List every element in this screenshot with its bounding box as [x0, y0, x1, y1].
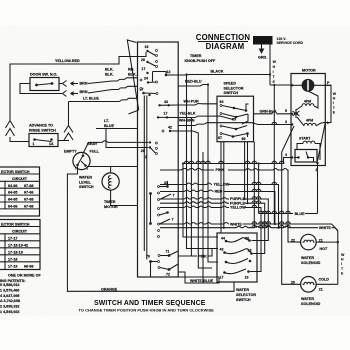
svg-text:CONNECTION: CONNECTION — [196, 33, 251, 42]
svg-text:2 3,899,332: 2 3,899,332 — [0, 305, 19, 309]
svg-text:7: 7 — [173, 194, 175, 198]
svg-text:4 3,637,095: 4 3,637,095 — [0, 294, 19, 298]
sss contact b — [245, 109, 248, 112]
svg-text:ADVANCE TO: ADVANCE TO — [29, 124, 53, 128]
wire black — [178, 74, 270, 77]
wire terminal2 down — [317, 163, 319, 214]
SECTION: timerbox — [105, 40, 216, 277]
svg-text:DOOR SW. N.O.: DOOR SW. N.O. — [30, 73, 57, 77]
centrifugal star — [293, 109, 300, 118]
junction yellow to white — [277, 227, 279, 229]
svg-text:21: 21 — [319, 238, 323, 242]
svg-text:GRD.: GRD. — [258, 56, 267, 60]
SECTION: bottomright — [217, 228, 345, 306]
wire door sw to connector — [59, 83, 62, 85]
svg-text:A 3,742,608: A 3,742,608 — [0, 299, 20, 303]
svg-text:67: 67 — [218, 136, 222, 140]
svg-text:YELLOW: YELLOW — [214, 183, 230, 187]
svg-text:LT.: LT. — [104, 119, 109, 123]
SECTION: bundle — [160, 73, 338, 284]
svg-text:ECTOR SWITCH: ECTOR SWITCH — [1, 170, 30, 174]
diagonal motor L to solenoid — [318, 123, 326, 162]
svg-text:64-66: 64-66 — [8, 205, 17, 209]
hot solenoid coil — [303, 240, 315, 242]
junction on red-blu wire — [207, 83, 209, 85]
svg-text:SELECTOR: SELECTOR — [236, 293, 256, 297]
timer box bottom ext — [178, 276, 219, 278]
svg-text:44: 44 — [221, 237, 225, 241]
junction on black wire — [185, 73, 187, 75]
wire wls3 to timer — [87, 166, 138, 168]
svg-text:MOTOR: MOTOR — [104, 205, 118, 209]
svg-text:72: 72 — [166, 273, 170, 277]
svg-text:24: 24 — [144, 77, 148, 81]
connector arrows BRN top — [63, 81, 67, 87]
svg-text:42: 42 — [168, 126, 172, 130]
svg-text:WATER: WATER — [301, 256, 314, 260]
svg-text:17-18-19: 17-18-19 — [8, 250, 23, 254]
svg-text:PINK: PINK — [198, 254, 207, 258]
svg-text:67-68: 67-68 — [24, 205, 33, 209]
svg-text:SWITCH AND TIMER SEQUENCE: SWITCH AND TIMER SEQUENCE — [94, 300, 206, 307]
junction dots bundle — [182, 162, 184, 164]
wls terminal 2 — [76, 164, 79, 167]
wire yellow h207 — [160, 206, 229, 207]
svg-text:WHITE-BLUE: WHITE-BLUE — [190, 279, 214, 283]
vertical wire v274 — [273, 85, 275, 224]
svg-text:BLK.: BLK. — [128, 72, 137, 76]
vertical wire v203 — [202, 152, 204, 283]
svg-text:1 4,549,923: 1 4,549,923 — [0, 310, 19, 314]
svg-text:WATER: WATER — [236, 288, 249, 292]
door switch contacts — [35, 84, 38, 87]
wire purple h199 — [160, 198, 229, 199]
svg-text:SERVICE CORD: SERVICE CORD — [277, 41, 304, 45]
svg-text:RINSE SWITCH: RINSE SWITCH — [29, 129, 56, 133]
svg-text:ONE OR MORE OF: ONE OR MORE OF — [8, 274, 42, 278]
vertical wire v193 — [190, 118, 192, 257]
wire blue h213 — [259, 213, 293, 215]
svg-text:67-68: 67-68 — [24, 198, 33, 202]
svg-text:SOLENOID: SOLENOID — [301, 261, 321, 265]
wire ltblue2 drop — [106, 129, 149, 148]
inner link segment — [150, 194, 152, 224]
wire chevron to advance switch — [10, 137, 29, 142]
terminal dots motor edge — [291, 84, 293, 86]
svg-text:16: 16 — [145, 45, 149, 49]
svg-text:64-65: 64-65 — [8, 191, 17, 195]
vertical wire v208 — [208, 156, 218, 262]
wire hop bumps right bundle — [252, 122, 290, 228]
timer motor bottom lead — [111, 190, 138, 206]
diagonal motor 3 to wss — [282, 126, 294, 152]
terminal 28 cluster — [149, 141, 151, 143]
wire grn-blk to motor — [254, 112, 292, 114]
hot solenoid circle — [301, 234, 317, 250]
winding upper — [302, 104, 314, 106]
wire white-blue — [178, 272, 219, 283]
water selector switch box — [217, 233, 257, 282]
svg-text:19: 19 — [245, 276, 249, 280]
svg-text:EMPTY: EMPTY — [64, 150, 77, 154]
svg-text:17-18-19-42: 17-18-19-42 — [8, 243, 28, 247]
svg-text:ORANGE: ORANGE — [101, 287, 118, 291]
timer cam triangle — [127, 40, 138, 114]
table speed selector — [0, 167, 40, 216]
wss mid contacts — [225, 261, 228, 264]
svg-text:4PM: 4PM — [304, 100, 311, 104]
SECTION: motor — [183, 69, 337, 238]
speed selector box — [217, 96, 254, 142]
winding lower — [304, 123, 316, 125]
wire wls2 down orange — [67, 167, 234, 292]
SECTION: title — [196, 33, 251, 51]
ground wire — [261, 45, 263, 49]
protector circle — [302, 80, 314, 92]
svg-text:RED: RED — [215, 190, 223, 194]
motor right bracket — [325, 85, 331, 122]
svg-text:BLUE: BLUE — [104, 124, 115, 128]
svg-text:CIRCUIT: CIRCUIT — [12, 229, 28, 233]
service cord plug — [253, 36, 273, 45]
svg-text:17-17: 17-17 — [8, 236, 17, 240]
wire yellow-red — [10, 52, 146, 120]
svg-text:28: 28 — [141, 149, 145, 153]
water level switch circle — [73, 152, 90, 169]
table water selector — [0, 220, 40, 270]
start winding leads — [297, 144, 320, 161]
wire purple h203 — [160, 202, 229, 203]
svg-text:SWITCH: SWITCH — [236, 298, 251, 302]
svg-text:BRN: BRN — [80, 82, 88, 86]
svg-text:5: 5 — [285, 109, 287, 113]
timer motor circle — [102, 173, 119, 190]
svg-text:MOTOR: MOTOR — [302, 69, 316, 73]
door switch left bracket wire — [20, 84, 62, 94]
terminal rows mid — [158, 208, 160, 210]
svg-text:WATER: WATER — [301, 297, 314, 301]
wls terminal 3 — [84, 164, 87, 167]
connector arrows BRN bottom — [63, 91, 67, 97]
svg-text:CIRCUIT: CIRCUIT — [12, 177, 28, 181]
wire advance to chevron — [58, 139, 69, 142]
SECTION: tables — [0, 167, 42, 314]
vertical wire v220 from sss67 — [220, 142, 222, 233]
cold solenoid coil — [303, 282, 315, 284]
svg-text:22: 22 — [291, 239, 295, 243]
wire red h191 — [160, 190, 213, 191]
svg-text:TO CHANGE TIMER POSITION PUSH: TO CHANGE TIMER POSITION PUSH KNOB IN AN… — [79, 308, 215, 313]
vertical wire v198 — [198, 160, 212, 268]
svg-text:0 3,588,013: 0 3,588,013 — [0, 283, 19, 287]
SECTION: speedsel — [178, 70, 291, 161]
svg-text:LEVEL: LEVEL — [79, 180, 92, 184]
svg-text:43: 43 — [220, 248, 224, 252]
svg-text:2: 2 — [145, 155, 147, 159]
svg-text:BRN: BRN — [80, 90, 88, 94]
svg-text:17: 17 — [220, 276, 224, 280]
sss mid contacts — [220, 125, 222, 127]
svg-text:17: 17 — [142, 67, 146, 71]
hot leads — [297, 241, 338, 243]
svg-text:12: 12 — [167, 70, 171, 74]
advance rinse switch box — [29, 134, 58, 147]
svg-text:43: 43 — [164, 100, 168, 104]
wires into left edge jogs — [140, 79, 142, 81]
timer motor top lead — [110, 167, 112, 174]
svg-text:TIMER: TIMER — [190, 54, 202, 58]
svg-text:1A: 1A — [49, 142, 54, 146]
title underline — [198, 41, 248, 43]
wire 70 drop to bottom — [150, 262, 152, 278]
terminal 2 bottom — [316, 162, 318, 164]
ground arrow — [259, 49, 265, 55]
svg-text:SPEED: SPEED — [224, 82, 237, 86]
wire white drop from plug — [269, 45, 271, 86]
svg-text:70: 70 — [146, 255, 150, 259]
node junction black/white — [269, 73, 271, 75]
svg-text:1: 1 — [33, 142, 35, 146]
svg-text:WHITE: WHITE — [319, 226, 331, 230]
svg-text:4PM: 4PM — [306, 119, 313, 123]
wire white common right — [332, 228, 338, 285]
svg-text:26: 26 — [141, 58, 145, 62]
svg-text:YELLOW-RED: YELLOW-RED — [55, 59, 80, 63]
wire lt blue to timer — [69, 98, 138, 101]
svg-text:17-19: 17-19 — [8, 264, 17, 268]
svg-text:64-65: 64-65 — [8, 198, 17, 202]
svg-text:BLK.: BLK. — [105, 72, 114, 76]
svg-text:FULL: FULL — [90, 150, 100, 154]
wire 71 exits right — [169, 251, 178, 270]
protector leads — [291, 84, 302, 86]
wls terminal 1 — [82, 154, 85, 157]
svg-text:21: 21 — [319, 288, 323, 292]
svg-text:67-66: 67-66 — [24, 191, 33, 195]
svg-text:SOLENOID: SOLENOID — [301, 302, 321, 306]
SECTION: servicecord — [253, 36, 304, 85]
svg-text:START: START — [299, 137, 311, 141]
wire lt blue 2 to timer — [96, 128, 138, 130]
svg-text:PINK: PINK — [216, 168, 225, 172]
svg-text:BLUE: BLUE — [295, 212, 306, 216]
svg-text:64-66: 64-66 — [8, 184, 17, 188]
svg-text:SWITCH: SWITCH — [224, 91, 239, 95]
centrifugal contacts — [297, 156, 299, 158]
wire brn2 to timer — [88, 86, 138, 93]
svg-text:TIMER: TIMER — [104, 200, 116, 204]
svg-text:RD.: RD. — [128, 68, 134, 72]
protector arcs — [302, 80, 307, 91]
wire wh-pur — [178, 104, 217, 105]
wire ltblue corner down — [68, 102, 70, 126]
svg-text:YEL-BLK: YEL-BLK — [180, 111, 196, 115]
svg-text:BLACK: BLACK — [211, 70, 224, 74]
cold solenoid circle — [301, 277, 317, 293]
wire 42 down — [178, 131, 198, 160]
svg-text:WHITE: WHITE — [230, 222, 242, 226]
motor box — [291, 74, 325, 166]
wire to motor — [270, 84, 291, 86]
SECTION: bottomtext — [79, 300, 215, 313]
svg-text:LT. BLUE: LT. BLUE — [83, 97, 99, 101]
connector chevrons left — [6, 121, 15, 137]
svg-text:17: 17 — [164, 112, 168, 116]
connector chevrons mid — [64, 126, 73, 141]
svg-text:KNOB-PUSH OFF: KNOB-PUSH OFF — [185, 59, 216, 63]
wire gray wls to timer — [84, 141, 149, 153]
svg-text:71: 71 — [166, 250, 170, 254]
vertical wire v254 — [253, 142, 255, 228]
winding lower leads — [297, 117, 325, 126]
wire white h224 — [160, 223, 229, 224]
svg-text:YELLOW: YELLOW — [230, 206, 246, 210]
wire yellow h184 — [160, 183, 212, 184]
wire red-blu — [178, 85, 208, 87]
svg-text:WATER: WATER — [79, 176, 92, 180]
svg-text:64: 64 — [220, 100, 224, 104]
wire yel-blk — [178, 116, 233, 120]
inner verticals from 27 down — [144, 96, 147, 260]
svg-text:7: 7 — [172, 218, 174, 222]
svg-text:ECTOR SWITCH: ECTOR SWITCH — [1, 222, 30, 226]
svg-text:17-18: 17-18 — [8, 257, 17, 261]
svg-text:SELECTOR: SELECTOR — [224, 86, 244, 90]
svg-text:66: 66 — [242, 137, 246, 141]
vertical wire v188 — [187, 75, 219, 249]
wire pink bottom — [178, 255, 197, 257]
wire motor4 left pink — [183, 158, 292, 238]
wls lever — [78, 156, 86, 166]
svg-text:4: 4 — [285, 153, 287, 157]
wire pink h170 — [160, 169, 214, 171]
wire brn1 to timer — [88, 78, 138, 84]
svg-text:BLK.: BLK. — [105, 68, 114, 72]
start winding — [303, 141, 315, 143]
winding upper leads — [296, 91, 318, 110]
vertical wire v244 from sss66 — [244, 142, 246, 199]
svg-text:67-68: 67-68 — [24, 184, 33, 188]
junction red to white — [274, 223, 276, 225]
door switch box — [30, 78, 59, 91]
svg-text:HOT: HOT — [320, 247, 329, 251]
svg-text:66-68: 66-68 — [24, 264, 33, 268]
advance switch contacts — [33, 138, 36, 141]
svg-text:SWITCH: SWITCH — [79, 185, 94, 189]
svg-text:DIAGRAM: DIAGRAM — [206, 42, 245, 51]
centrifugal switch box — [295, 150, 317, 163]
wire white h227 — [160, 226, 318, 227]
wire 12 to box edge — [166, 74, 178, 76]
svg-text:20: 20 — [291, 280, 295, 284]
svg-text:1 3,579,460: 1 3,579,460 — [0, 288, 19, 292]
wire wh-brn to motor3 — [178, 123, 291, 126]
svg-text:COLD: COLD — [319, 278, 330, 282]
vertical wire v281 to cold — [282, 152, 297, 284]
timer motor coil — [108, 176, 110, 189]
svg-text:3: 3 — [285, 120, 287, 124]
cold leads — [297, 283, 338, 285]
SECTION: leftarea — [6, 52, 235, 291]
timer box — [138, 42, 179, 277]
bracket 17-12 — [153, 72, 167, 82]
svg-text:RED-BLU: RED-BLU — [185, 80, 202, 84]
svg-text:WH-PUR: WH-PUR — [184, 100, 199, 104]
